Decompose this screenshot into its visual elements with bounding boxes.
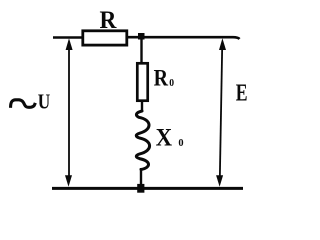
inductor X0 [136,111,149,170]
arrow U line [68,47,70,178]
AC source tilde [11,100,35,108]
svg-text:0: 0 [178,137,184,149]
node top junction [138,33,145,40]
wire junction to R0 [140,39,142,63]
svg-text:U: U [38,90,51,114]
arrow E head up [219,38,226,50]
resistor R0 [137,63,147,100]
wire top-left segment [53,36,83,39]
wire top-right segment [126,37,240,39]
arrow E head down [216,175,223,187]
wire bottom [52,187,243,190]
wire R0 to coil [141,101,143,112]
arrow U head down [65,175,72,187]
svg-text:R: R [100,7,118,34]
node bottom junction [137,184,144,193]
wire coil to bottom [140,168,142,185]
svg-text:E: E [236,80,248,107]
resistor R [83,31,127,45]
svg-text:R: R [154,65,169,91]
svg-text:0: 0 [169,77,174,89]
arrow E line [220,46,222,180]
arrow U head up [66,38,73,50]
svg-text:X: X [156,124,173,151]
